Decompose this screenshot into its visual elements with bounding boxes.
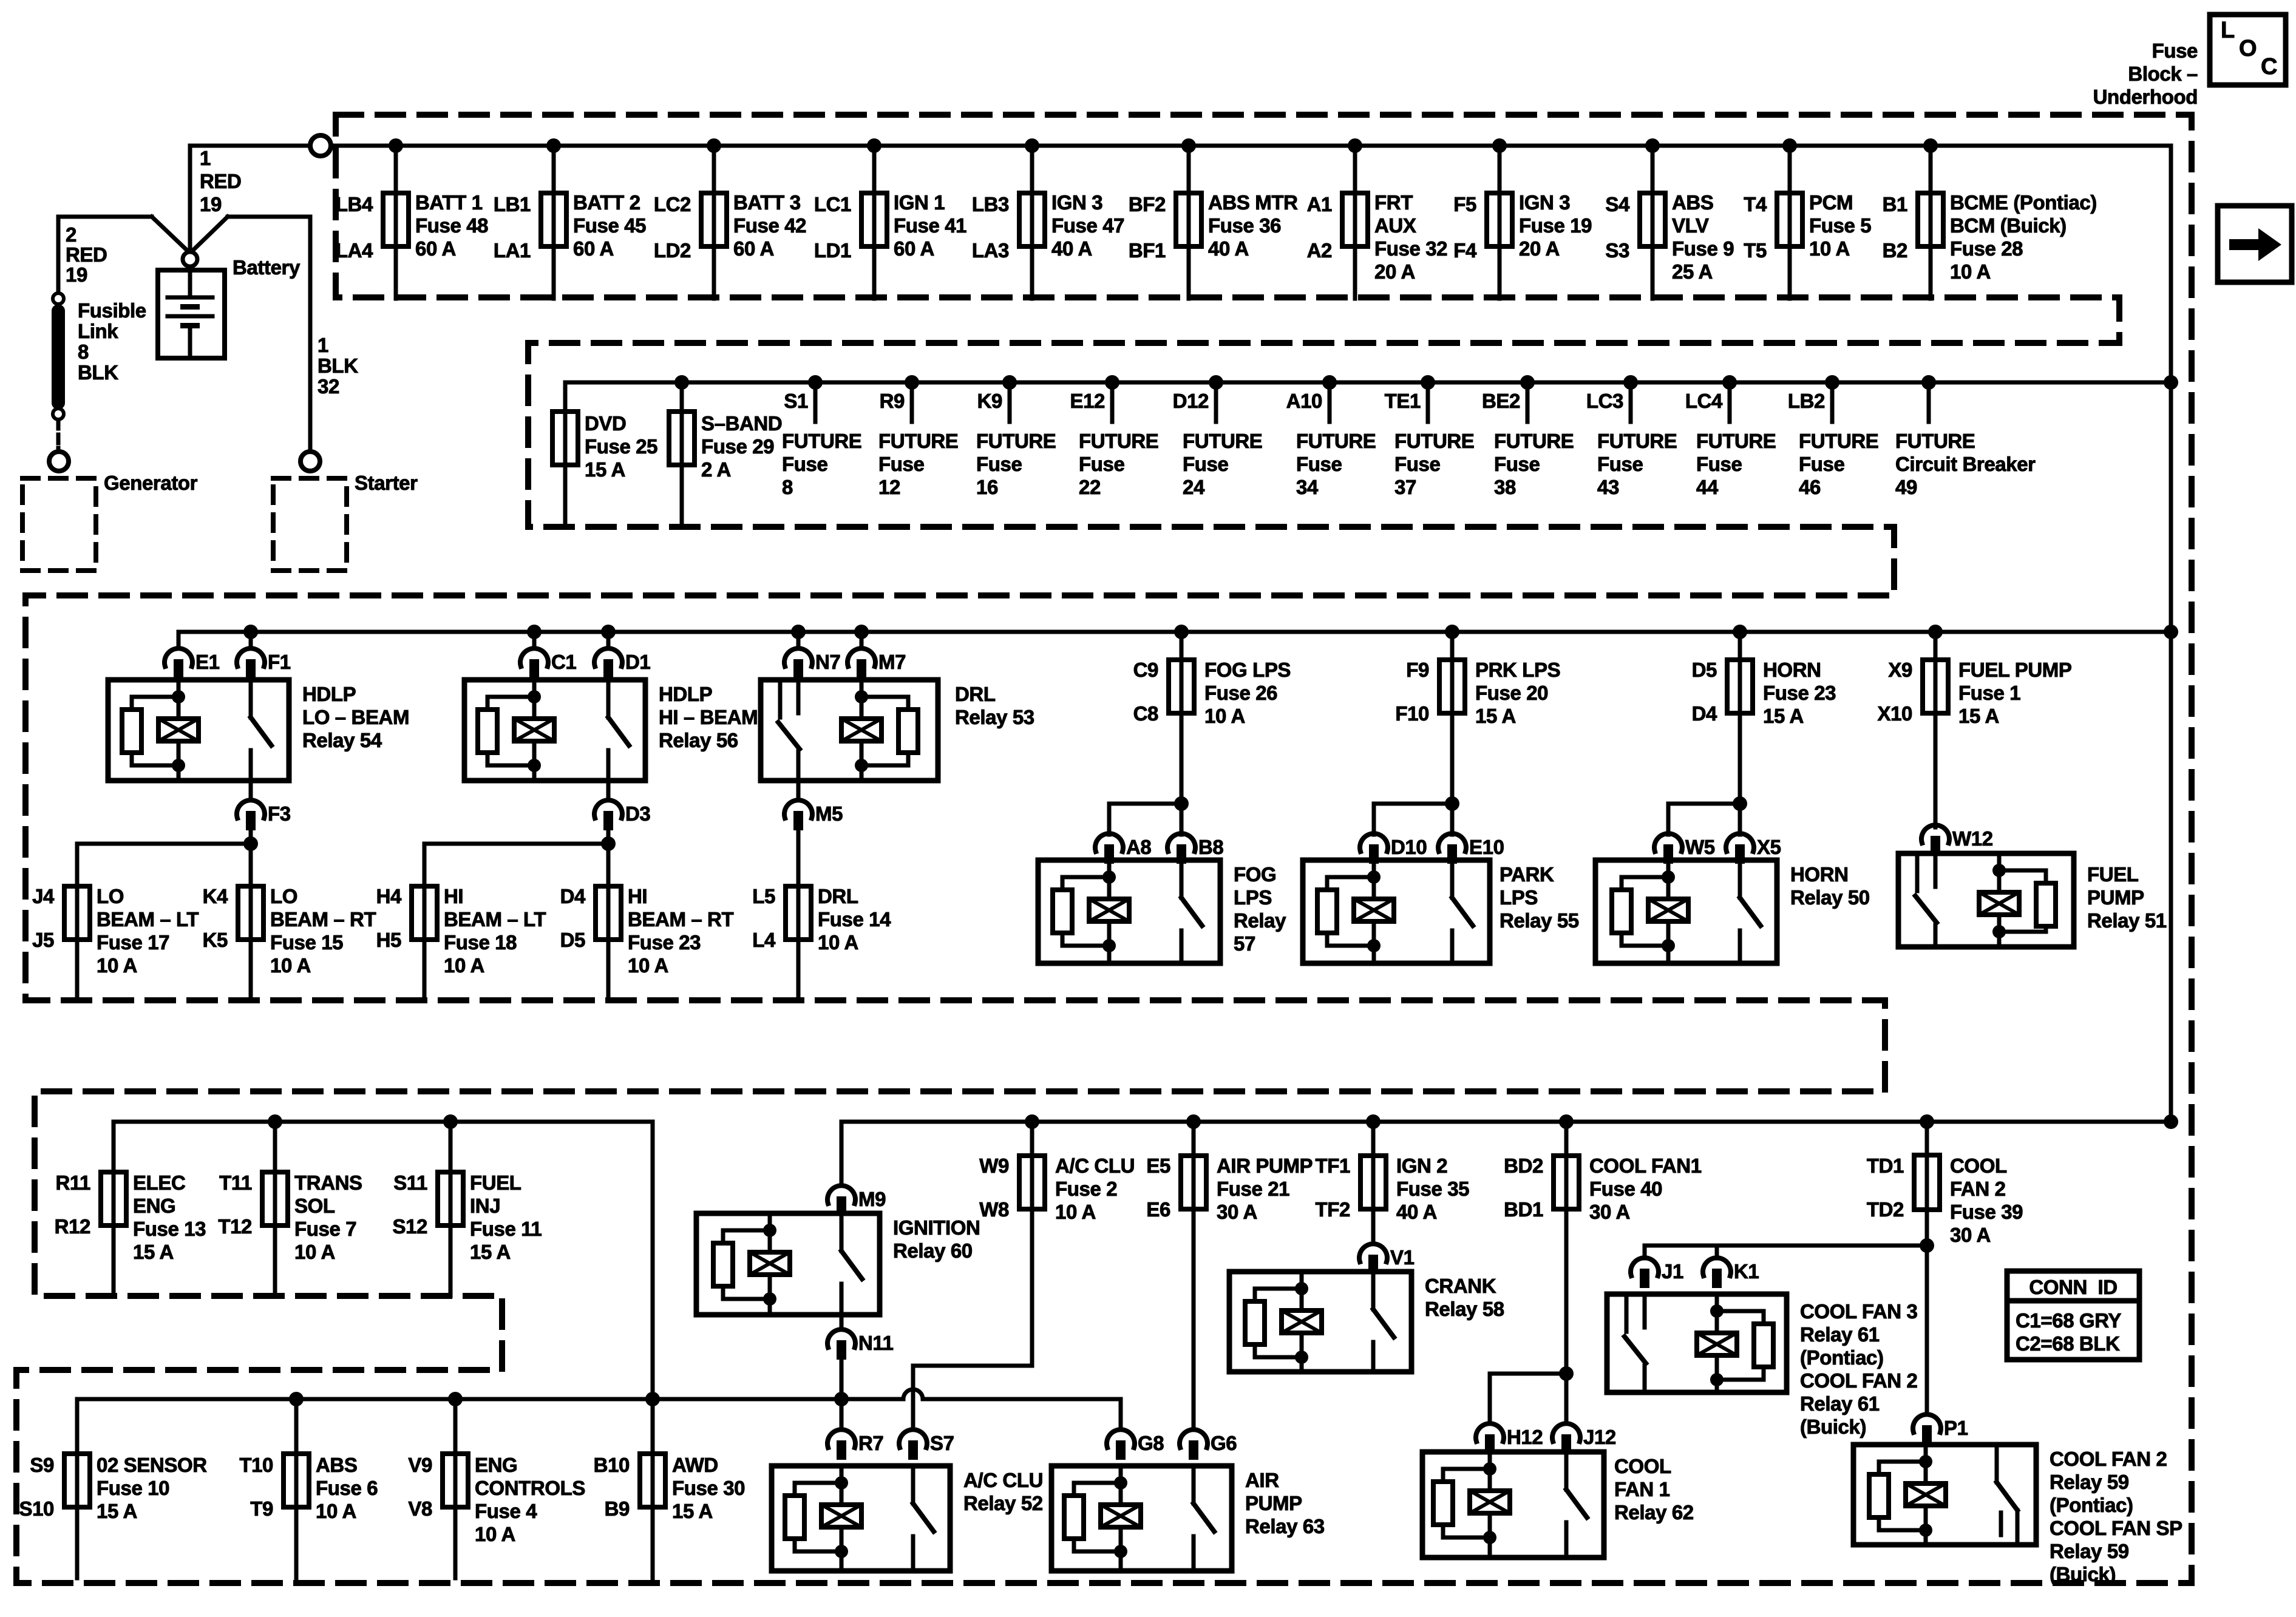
svg-text:15 A: 15 A	[1475, 705, 1516, 727]
svg-text:T4: T4	[1744, 193, 1767, 215]
fuse 18 HI BEAM-LT	[412, 844, 437, 1000]
pin labels W9 W8	[979, 1154, 1009, 1221]
value label fuse 11	[470, 1171, 542, 1263]
svg-text:Fuse 17: Fuse 17	[97, 931, 169, 954]
svg-text:X10: X10	[1877, 702, 1912, 725]
svg-text:G8: G8	[1138, 1432, 1164, 1454]
future fuse 8 stub pin S1	[784, 382, 815, 422]
svg-text:BEAM – LT: BEAM – LT	[444, 908, 546, 931]
svg-text:Battery: Battery	[233, 256, 301, 279]
svg-text:Fuse 9: Fuse 9	[1672, 237, 1734, 260]
svg-text:Fuse 26: Fuse 26	[1204, 682, 1277, 704]
junction future fuse 12	[905, 375, 919, 390]
svg-text:HDLP: HDLP	[302, 683, 356, 705]
connector E10	[1438, 833, 1504, 864]
junction N7	[791, 625, 806, 639]
svg-text:15 A: 15 A	[1958, 705, 1999, 727]
value label fuse 41 IGN 1	[894, 191, 966, 260]
value label FUTURE Fuse 12	[878, 430, 958, 498]
svg-text:Relay: Relay	[1234, 909, 1286, 932]
svg-text:Starter: Starter	[355, 472, 418, 494]
svg-text:S–BAND: S–BAND	[701, 412, 782, 435]
future fuse 16 stub pin K9	[977, 382, 1010, 422]
connector K1	[1703, 1258, 1759, 1288]
svg-text:40 A: 40 A	[1051, 237, 1092, 260]
svg-text:Fuse: Fuse	[1799, 453, 1844, 475]
svg-text:V9: V9	[408, 1454, 432, 1476]
svg-text:Fuse: Fuse	[1079, 453, 1124, 475]
svg-text:HI: HI	[628, 885, 647, 907]
svg-text:BLK: BLK	[78, 361, 118, 384]
relay 61 label	[1800, 1300, 1917, 1438]
fuse 19 IGN 3	[1487, 146, 1512, 299]
value label fuse 28 BCM	[1950, 191, 2097, 283]
value label fuse 9 ABS VLV	[1672, 191, 1734, 283]
svg-text:IGNITION: IGNITION	[893, 1216, 980, 1239]
svg-text:02 SENSOR: 02 SENSOR	[97, 1454, 207, 1476]
value label FUTURE Fuse 24	[1183, 430, 1262, 498]
connector F3	[237, 800, 291, 830]
pin labels S9 S10	[19, 1454, 54, 1520]
wire N7 drop	[796, 632, 801, 647]
wire 2 RED 19 to fusible link	[58, 217, 152, 293]
svg-text:Fuse 30: Fuse 30	[672, 1477, 745, 1499]
pin labels LC2 LD2	[654, 193, 691, 262]
svg-text:IGN 3: IGN 3	[1519, 191, 1570, 214]
svg-text:D5: D5	[560, 929, 585, 951]
svg-text:T5: T5	[1744, 239, 1767, 262]
svg-text:W5: W5	[1685, 836, 1715, 858]
svg-text:D3: D3	[625, 802, 650, 825]
fuse 45 BATT 2	[541, 146, 566, 299]
svg-text:N7: N7	[815, 651, 840, 673]
junction fuse 48 BATT 1	[389, 138, 403, 153]
value label FUTURE Fuse 46	[1799, 430, 1878, 498]
svg-text:FOG LPS: FOG LPS	[1204, 659, 1291, 681]
svg-text:BLK: BLK	[318, 354, 358, 377]
future fuse 22 stub pin E12	[1070, 382, 1112, 422]
svg-text:19: 19	[200, 193, 222, 215]
wire D10 drop	[1372, 804, 1376, 835]
value label FUTURE Fuse 22	[1079, 430, 1158, 498]
junction F1	[243, 625, 258, 639]
value label FUTURE Fuse 43	[1597, 430, 1677, 498]
svg-text:16: 16	[976, 476, 998, 498]
junction fuse 35	[1366, 1114, 1381, 1129]
pin labels LB4 LA4	[336, 193, 373, 262]
fuse 13 ELEC ENG	[101, 1122, 126, 1296]
svg-text:S3: S3	[1605, 239, 1629, 262]
svg-text:F9: F9	[1406, 659, 1429, 681]
svg-text:T12: T12	[218, 1215, 252, 1238]
crossover hump S7 wire over bottom bus	[903, 1389, 923, 1399]
svg-text:AWD: AWD	[672, 1454, 718, 1476]
wire F1 drop	[249, 632, 253, 647]
svg-text:D4: D4	[560, 885, 586, 907]
svg-text:10 A: 10 A	[1204, 705, 1245, 727]
svg-text:BATT 1: BATT 1	[415, 191, 483, 214]
junction fuse 41 IGN 1	[867, 138, 881, 153]
value label fuse 42 BATT 3	[733, 191, 806, 260]
svg-text:10 A: 10 A	[628, 954, 668, 977]
connector J1	[1631, 1258, 1683, 1288]
svg-text:Fuse 1: Fuse 1	[1958, 682, 2020, 704]
junction future fuse 38	[1520, 375, 1535, 390]
arrow continuation box	[2218, 206, 2292, 282]
svg-text:CRANK: CRANK	[1425, 1275, 1496, 1297]
value label fuse 40	[1589, 1154, 1702, 1223]
svg-text:2 A: 2 A	[701, 458, 731, 481]
svg-text:RED: RED	[200, 170, 241, 192]
svg-text:FOG: FOG	[1234, 863, 1276, 886]
pin labels BD2 BD1	[1504, 1154, 1543, 1221]
svg-text:30 A: 30 A	[1217, 1201, 1257, 1223]
svg-text:15 A: 15 A	[585, 458, 625, 481]
fuse 48 BATT 1	[383, 146, 409, 299]
svg-text:K9: K9	[977, 390, 1002, 412]
value label fuse 18	[444, 885, 546, 977]
pin labels J4 J5	[32, 885, 55, 951]
svg-text:A8: A8	[1126, 836, 1151, 858]
svg-text:20 A: 20 A	[1374, 260, 1415, 283]
connector B8	[1167, 833, 1223, 864]
svg-text:Fuse 39: Fuse 39	[1950, 1201, 2023, 1223]
fuse 41 IGN 1	[861, 146, 887, 299]
wire fuse 2 to S7	[913, 1366, 1032, 1428]
value label fuse 1	[1958, 659, 2071, 727]
svg-text:R7: R7	[858, 1432, 883, 1454]
svg-text:HI – BEAM: HI – BEAM	[659, 706, 758, 728]
svg-text:Fuse 11: Fuse 11	[470, 1218, 542, 1240]
generator terminal circle	[49, 452, 69, 471]
future fuse 46 stub pin LB2	[1788, 382, 1832, 422]
svg-text:A1: A1	[1307, 193, 1332, 215]
svg-text:8: 8	[782, 476, 793, 498]
relay 62 label	[1614, 1455, 1694, 1524]
svg-text:AIR: AIR	[1245, 1469, 1279, 1491]
junction fuse 29	[674, 375, 689, 390]
svg-text:FUTURE: FUTURE	[1079, 430, 1158, 452]
value label fuse 32 FRT AUX	[1374, 191, 1447, 283]
svg-text:15 A: 15 A	[97, 1500, 137, 1522]
svg-text:37: 37	[1394, 476, 1416, 498]
connector R7	[827, 1429, 883, 1460]
svg-text:S9: S9	[30, 1454, 54, 1476]
connector N7	[784, 648, 840, 679]
svg-text:F1: F1	[268, 651, 291, 673]
svg-text:(Buick): (Buick)	[1800, 1415, 1866, 1438]
svg-text:(Pontiac): (Pontiac)	[1800, 1346, 1884, 1369]
svg-text:A2: A2	[1307, 239, 1332, 262]
svg-text:LB1: LB1	[494, 193, 531, 215]
svg-text:LPS: LPS	[1234, 886, 1272, 909]
svg-text:Fuse 23: Fuse 23	[628, 931, 701, 954]
wire label 1 BLK 32	[318, 334, 358, 398]
svg-text:E10: E10	[1469, 836, 1504, 858]
fuse 15 LO BEAM-RT	[238, 844, 263, 1000]
junction fuse 5 PCM	[1782, 138, 1797, 153]
svg-text:ABS MTR: ABS MTR	[1208, 191, 1298, 214]
relay 51 label	[2087, 863, 2167, 932]
relay 55 label	[1500, 863, 1579, 932]
value label FUTURE Fuse 44	[1696, 430, 1776, 498]
junction future fuse 22	[1105, 375, 1119, 390]
svg-text:FAN 1: FAN 1	[1614, 1478, 1670, 1500]
value label fuse 45 BATT 2	[573, 191, 646, 260]
wire M5 to fuse 14	[796, 829, 801, 844]
value label fuse 47 IGN 3	[1051, 191, 1124, 260]
svg-text:L: L	[2221, 18, 2235, 43]
value label fuse 15	[270, 885, 376, 977]
svg-text:FUTURE: FUTURE	[1597, 430, 1677, 452]
fuse 6 ABS	[284, 1399, 309, 1578]
svg-text:60 A: 60 A	[573, 237, 614, 260]
svg-text:Fuse 18: Fuse 18	[444, 931, 517, 954]
svg-text:30 A: 30 A	[1589, 1201, 1630, 1223]
svg-text:LPS: LPS	[1500, 886, 1538, 909]
svg-text:Fuse 29: Fuse 29	[701, 435, 774, 458]
svg-text:BEAM – RT: BEAM – RT	[270, 908, 376, 931]
svg-text:FRT: FRT	[1374, 191, 1413, 214]
wire N11 stub	[840, 1315, 844, 1328]
svg-text:FUEL: FUEL	[2087, 863, 2139, 886]
svg-text:Relay 50: Relay 50	[1790, 886, 1870, 909]
junction future fuse 37	[1421, 375, 1435, 390]
junction F3 branch	[243, 836, 258, 851]
svg-text:M7: M7	[878, 651, 906, 673]
svg-text:LC3: LC3	[1586, 390, 1623, 412]
fuse 28 BCM	[1918, 146, 1943, 299]
svg-text:FAN 2: FAN 2	[1950, 1178, 2006, 1200]
junction fuse 21	[1186, 1114, 1201, 1129]
wire R7 drop	[840, 1399, 844, 1428]
fuse 26 FOG LPS	[1169, 632, 1194, 804]
pin labels B10 B9	[594, 1454, 630, 1520]
connector E1	[165, 648, 220, 679]
connector D1	[594, 648, 650, 679]
future fuse 12 stub pin R9	[880, 382, 912, 422]
wire D1 drop	[606, 632, 611, 647]
fuse 36 ABS MTR	[1176, 146, 1201, 299]
wire branch to J1 K1	[1645, 1246, 1927, 1258]
svg-text:PUMP: PUMP	[2087, 886, 2144, 909]
svg-text:BD2: BD2	[1504, 1154, 1543, 1177]
junction C1	[527, 625, 542, 639]
svg-text:C8: C8	[1133, 702, 1158, 725]
junction future fuse 43	[1623, 375, 1638, 390]
svg-text:22: 22	[1079, 476, 1101, 498]
svg-text:D1: D1	[625, 651, 650, 673]
svg-text:40 A: 40 A	[1208, 237, 1249, 260]
junction fuse 42 BATT 3	[707, 138, 721, 153]
svg-text:T10: T10	[239, 1454, 273, 1476]
junction fuse 30	[645, 1392, 660, 1406]
pin labels K4 K5	[203, 885, 228, 951]
svg-text:Relay 52: Relay 52	[963, 1492, 1043, 1514]
svg-text:S4: S4	[1605, 193, 1630, 215]
fuse 47 IGN 3	[1019, 146, 1045, 299]
relay 54 label	[302, 683, 409, 751]
svg-text:Relay 63: Relay 63	[1245, 1515, 1325, 1537]
svg-text:Fuse 13: Fuse 13	[133, 1218, 206, 1240]
junction fuse 11	[443, 1114, 458, 1129]
svg-text:C1=68 GRY: C1=68 GRY	[2016, 1309, 2121, 1332]
svg-text:PRK LPS: PRK LPS	[1475, 659, 1560, 681]
pin labels TF1 TF2	[1316, 1154, 1351, 1221]
wire branch to A8	[1109, 802, 1181, 806]
starter Starter	[273, 478, 347, 571]
svg-text:C9: C9	[1133, 659, 1158, 681]
svg-text:C2=68 BLK: C2=68 BLK	[2016, 1332, 2120, 1355]
svg-text:P1: P1	[1944, 1417, 1968, 1439]
svg-text:15 A: 15 A	[1763, 705, 1804, 727]
value label S-BAND	[701, 412, 782, 481]
relay 53 label	[955, 683, 1034, 728]
svg-text:J1: J1	[1662, 1260, 1683, 1283]
pin labels H4 H5	[376, 885, 402, 951]
pin labels A1 A2	[1307, 193, 1332, 262]
pin labels T10 T9	[239, 1454, 273, 1520]
CONN ID table	[2007, 1271, 2139, 1360]
svg-text:COOL: COOL	[1614, 1455, 1671, 1477]
pin labels D5 D4	[1692, 659, 1717, 725]
svg-text:FUTURE: FUTURE	[1296, 430, 1376, 452]
connector H12	[1476, 1423, 1543, 1454]
svg-text:A10: A10	[1286, 390, 1322, 412]
value label fuse 26	[1204, 659, 1291, 727]
svg-text:COOL: COOL	[1950, 1154, 2007, 1177]
pin labels BF2 BF1	[1129, 193, 1166, 262]
svg-text:8: 8	[78, 341, 89, 363]
svg-text:FUTURE: FUTURE	[1183, 430, 1262, 452]
future fuse 37 stub pin TE1	[1385, 382, 1428, 422]
relay 58 CRANK	[1229, 1272, 1411, 1372]
wire bottom bus	[77, 1397, 903, 1402]
svg-text:Fuse: Fuse	[782, 453, 827, 475]
svg-text:Relay 60: Relay 60	[893, 1239, 973, 1262]
svg-text:BF1: BF1	[1129, 239, 1166, 262]
connector M7	[847, 648, 906, 679]
pin labels X9 X10	[1877, 659, 1912, 725]
svg-text:46: 46	[1799, 476, 1821, 498]
value label FUTURE Fuse 34	[1296, 430, 1376, 498]
svg-text:Block –: Block –	[2128, 63, 2198, 85]
connector G6	[1180, 1429, 1237, 1460]
svg-text:TF2: TF2	[1316, 1198, 1351, 1221]
fuse 30 AWD	[640, 1399, 665, 1578]
junction future fuse 44	[1722, 375, 1737, 390]
svg-text:LO – BEAM: LO – BEAM	[302, 706, 409, 728]
svg-text:LO: LO	[97, 885, 124, 907]
svg-text:30 A: 30 A	[1950, 1224, 1991, 1246]
svg-text:Relay 51: Relay 51	[2087, 909, 2167, 932]
svg-text:10 A: 10 A	[294, 1241, 335, 1263]
svg-text:57: 57	[1234, 932, 1255, 955]
starter terminal circle	[301, 452, 320, 471]
value label fuse 17	[97, 885, 199, 977]
svg-text:L5: L5	[752, 885, 775, 907]
svg-text:Fuse 19: Fuse 19	[1519, 214, 1592, 237]
svg-text:DRL: DRL	[955, 683, 996, 705]
svg-text:38: 38	[1494, 476, 1516, 498]
svg-text:Relay 61: Relay 61	[1800, 1392, 1880, 1415]
svg-text:W9: W9	[979, 1154, 1009, 1177]
svg-text:10 A: 10 A	[97, 954, 137, 977]
junction fuse 26	[1174, 625, 1189, 639]
svg-text:Fuse 23: Fuse 23	[1763, 682, 1836, 704]
junction row2 bus right	[2164, 375, 2178, 390]
svg-text:H5: H5	[376, 929, 401, 951]
wire row2 bus	[565, 381, 2171, 385]
svg-text:LB4: LB4	[336, 193, 373, 215]
svg-text:ABS: ABS	[1672, 191, 1713, 214]
svg-text:T11: T11	[219, 1171, 252, 1194]
svg-text:15 A: 15 A	[672, 1500, 713, 1522]
svg-text:S10: S10	[19, 1497, 54, 1520]
svg-text:Fuse 42: Fuse 42	[733, 214, 806, 237]
svg-text:LA3: LA3	[972, 239, 1009, 262]
svg-text:D4: D4	[1692, 702, 1717, 725]
svg-text:10 A: 10 A	[1950, 260, 1991, 283]
svg-text:E12: E12	[1070, 390, 1105, 412]
future fuse 44 stub pin LC4	[1685, 382, 1730, 422]
svg-text:F10: F10	[1395, 702, 1429, 725]
wire branch to H12	[1490, 1374, 1566, 1423]
svg-text:TF1: TF1	[1316, 1154, 1351, 1177]
svg-text:PARK: PARK	[1500, 863, 1554, 886]
junction future fuse 16	[1002, 375, 1017, 390]
fuse 2 A/C CLU	[1019, 1122, 1045, 1366]
svg-text:Relay 53: Relay 53	[955, 706, 1034, 728]
junction fuse 47 IGN 3	[1025, 138, 1039, 153]
connector D10	[1360, 833, 1427, 864]
svg-text:AIR PUMP: AIR PUMP	[1217, 1154, 1313, 1177]
junction relay bus right	[2164, 625, 2178, 639]
svg-text:LO: LO	[270, 885, 297, 907]
fuse 9 ABS VLV	[1640, 146, 1665, 299]
svg-text:COOL FAN 2: COOL FAN 2	[1800, 1369, 1917, 1392]
svg-text:12: 12	[878, 476, 900, 498]
svg-text:Link: Link	[78, 320, 118, 342]
fuse 14 DRL	[786, 844, 811, 1000]
svg-text:E6: E6	[1146, 1198, 1170, 1221]
wire M9 drop	[840, 1122, 844, 1184]
junction fog branch	[1174, 796, 1189, 811]
svg-text:15 A: 15 A	[470, 1241, 511, 1263]
svg-text:BF2: BF2	[1129, 193, 1166, 215]
wire X5 drop	[1738, 804, 1742, 835]
svg-text:D12: D12	[1173, 390, 1209, 412]
value label fuse 5 PCM	[1809, 191, 1871, 260]
svg-text:J5: J5	[32, 929, 54, 951]
svg-text:C: C	[2261, 54, 2277, 80]
svg-text:LB3: LB3	[972, 193, 1009, 215]
svg-text:S12: S12	[392, 1215, 427, 1238]
svg-text:V8: V8	[408, 1497, 432, 1520]
wire K1 drop	[1715, 1246, 1719, 1258]
svg-text:BE2: BE2	[1482, 390, 1520, 412]
wire B8 drop	[1180, 804, 1184, 835]
svg-text:Underhood: Underhood	[2093, 86, 2198, 108]
relay 63 AIR PUMP	[1051, 1466, 1232, 1571]
svg-text:Fuse 25: Fuse 25	[585, 435, 657, 458]
svg-text:BATT 3: BATT 3	[733, 191, 801, 214]
svg-text:Fuse 6: Fuse 6	[316, 1477, 378, 1499]
wire top battery bus	[190, 144, 310, 148]
svg-text:R9: R9	[880, 390, 905, 412]
junction fuse 7	[268, 1114, 282, 1129]
value label fuse 23	[628, 885, 733, 977]
